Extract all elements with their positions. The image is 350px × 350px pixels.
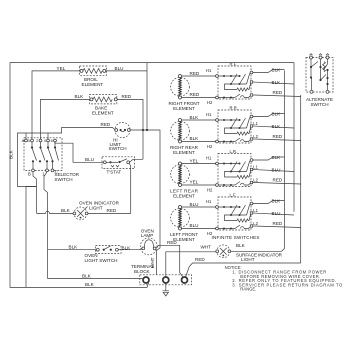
wire BLK (right rear element H2) <box>182 141 216 143</box>
svg-text:RED: RED <box>195 257 205 262</box>
wire L2 bus (right vertical) <box>300 95 302 263</box>
svg-text:ELEMENT: ELEMENT <box>173 150 195 155</box>
selector switch dashed box <box>24 138 62 171</box>
oven indicator light dashed circle <box>74 207 87 220</box>
infinite switch R.F. terminal P (pilot) <box>250 71 253 74</box>
surface indicator light lamp symbol <box>216 250 219 253</box>
wire BLK (to oven indicator light) <box>37 211 74 213</box>
wire BLK (surface light to pilot bus) <box>231 249 285 252</box>
infinite switch L.R. terminal H2 <box>216 184 219 187</box>
infinite switch L.R. terminal L1 <box>250 168 252 170</box>
infinite switch R.F. dashed box <box>218 66 251 99</box>
wire stub (selector 4 up) <box>47 133 49 141</box>
oven indicator light lamp symbol <box>73 212 76 215</box>
svg-text:T'STAT: T'STAT <box>107 170 122 175</box>
infinite switch R.R. internal contacts <box>218 119 240 121</box>
wire RED (L2 R.R. to L2 bus) <box>253 139 301 141</box>
svg-text:RED: RED <box>190 92 200 97</box>
svg-text:L2: L2 <box>253 221 258 226</box>
svg-text:BLK: BLK <box>190 115 200 120</box>
wire (RED wrap joins riser) <box>17 186 36 188</box>
infinite switch L.R. terminal P (pilot) <box>250 159 253 162</box>
svg-text:BLK: BLK <box>75 94 85 99</box>
svg-text:R.R.: R.R. <box>230 106 238 111</box>
wire (t'stat out down to oven indicator) <box>129 164 130 214</box>
selector switch bottom terminals B 1 C <box>32 162 34 169</box>
node junction M2 on hi-limit wire <box>142 129 144 131</box>
svg-text:INFINITE SWITCHES: INFINITE SWITCHES <box>212 235 260 240</box>
wire BLU (L1 L.F. to L1 bus) <box>253 213 294 215</box>
infinite switch L.R. internal contacts <box>218 163 240 165</box>
svg-text:3: 3 <box>28 138 30 143</box>
infinite switch L.R. terminal L2 <box>250 181 252 183</box>
wire BLK (right rear element H1) <box>182 119 216 121</box>
svg-text:LIGHT SWITCH: LIGHT SWITCH <box>85 258 118 263</box>
infinite switch L.F. dashed box <box>218 197 251 230</box>
terminal block dashed box <box>140 275 192 285</box>
wire BLK (L1 R.R. to L1 bus) <box>253 126 294 128</box>
svg-text:RED: RED <box>273 178 283 183</box>
wire (selector B down, jog left, down to bottom border) <box>26 172 37 288</box>
svg-text:L1: L1 <box>253 121 258 126</box>
wire BLU (broil element to node M1) <box>106 70 147 72</box>
svg-text:L1: L1 <box>253 208 258 213</box>
svg-text:L2: L2 <box>253 134 258 139</box>
left rear element dashed circle <box>171 165 190 184</box>
svg-text:2: 2 <box>36 138 38 143</box>
wire YEL (selector 3 to broil element) <box>32 71 80 141</box>
wire BLK (pilot L.R. to pilot bus) <box>253 157 285 160</box>
alternate switch internal contacts <box>311 59 318 90</box>
selector switch blades <box>32 148 37 161</box>
svg-text:ELEMENT: ELEMENT <box>92 110 114 115</box>
wire RED (hi-limit out to WHT drop) <box>130 130 160 275</box>
wire (selector 1 riser joins inner BLK wire) <box>47 250 49 279</box>
svg-text:ELEMENT: ELEMENT <box>173 237 195 242</box>
wire (selector 1 down to oven light switch) <box>44 172 48 250</box>
svg-text:RED: RED <box>122 94 132 99</box>
bake element dashed box <box>89 95 117 104</box>
wire BLK (selector 2 to bake element) <box>41 99 90 140</box>
svg-text:ELEMENT: ELEMENT <box>82 82 104 87</box>
wire YEL (left rear element H1) <box>182 163 216 165</box>
wire YEL (left rear element H2) <box>182 184 216 186</box>
selector switch lower contact dots <box>32 160 34 162</box>
svg-text:B: B <box>28 172 31 177</box>
wire BLK (to oven light switch) <box>48 249 97 251</box>
t'stat dashed box <box>102 157 135 169</box>
infinite switch R.R. terminal H2 <box>216 140 219 143</box>
wire (selector B riser to oven indicator light) <box>36 187 38 214</box>
t'stat contacts <box>103 161 106 164</box>
svg-text:BLU: BLU <box>272 211 281 216</box>
wire RED (right front element H2) <box>182 97 216 99</box>
infinite switch R.R. terminal L1 <box>250 125 252 127</box>
svg-text:H2: H2 <box>207 187 213 192</box>
svg-text:L.F.: L.F. <box>230 193 237 198</box>
wire stub (selector A up) <box>25 133 27 141</box>
svg-text:H1: H1 <box>206 199 212 204</box>
right rear element dashed circle <box>171 121 190 140</box>
svg-text:BLK: BLK <box>82 274 92 279</box>
svg-text:H1: H1 <box>206 156 212 161</box>
svg-text:H1: H1 <box>206 112 212 117</box>
svg-text:BLK: BLK <box>272 124 282 129</box>
svg-text:SWITCH: SWITCH <box>310 102 328 107</box>
svg-text:BLK: BLK <box>61 208 71 213</box>
right front element dashed circle <box>171 77 190 96</box>
wire RED (L2 L.R. to L2 bus) <box>253 183 301 185</box>
svg-text:BLK: BLK <box>69 245 79 250</box>
svg-text:BLK: BLK <box>272 198 282 203</box>
infinite switch L.R. dashed box <box>218 154 251 187</box>
infinite switch L.F. internal contacts <box>218 206 240 208</box>
oven lamp filament <box>142 247 145 250</box>
selector switch top terminals A 3 2 4 6 <box>25 139 28 142</box>
svg-text:RED: RED <box>101 122 111 127</box>
infinite switch R.R. terminal P (pilot) <box>250 115 253 118</box>
wire RED (selector 4 to hi-limit switch) <box>17 128 115 187</box>
selector switch upper contact dots <box>31 142 33 147</box>
svg-text:RED: RED <box>273 134 283 139</box>
wire BLK (L1 R.F. to L1 bus) <box>253 82 294 84</box>
wire BLK (pilot R.R. to pilot bus) <box>253 114 285 117</box>
wire RED (terminal 3 to L2 bus) <box>186 263 301 277</box>
svg-text:RANGE.: RANGE. <box>240 287 256 292</box>
wire RED (L2 R.F. to L2 bus) <box>253 95 301 97</box>
svg-text:BLK: BLK <box>272 111 282 116</box>
infinite switch R.R. terminal H1 <box>216 119 219 122</box>
wire RED (L2 L.F. to L2 bus) <box>253 226 301 228</box>
svg-text:LIGHT: LIGHT <box>241 257 255 262</box>
svg-text:H1: H1 <box>206 68 212 73</box>
wire BLK (pilot R.F. to pilot bus) <box>253 70 285 73</box>
left front element coil <box>179 209 181 227</box>
infinite switch L.F. terminal H2 <box>216 227 219 230</box>
svg-text:BLK: BLK <box>85 282 95 287</box>
alternate switch dashed box <box>306 58 333 93</box>
svg-text:A: A <box>22 138 25 143</box>
svg-text:BLK: BLK <box>236 243 246 248</box>
svg-text:H2: H2 <box>207 144 213 149</box>
broil element resistor <box>80 69 83 72</box>
bake element resistor <box>90 98 93 101</box>
svg-text:H2: H2 <box>207 100 213 105</box>
svg-text:BLU: BLU <box>272 168 281 173</box>
svg-text:BLOCK: BLOCK <box>134 269 151 274</box>
wire BLU (left front element H1) <box>182 206 216 208</box>
left front element dashed circle <box>171 208 190 227</box>
right rear element coil <box>179 122 181 140</box>
wire M1 (node to broil/top border) <box>146 63 148 130</box>
oven light switch contacts <box>96 248 99 251</box>
right front element coil <box>179 78 181 96</box>
svg-text:BLK: BLK <box>9 149 14 159</box>
wire BLU (L1 L.R. to L1 bus) <box>253 170 294 172</box>
infinite switch R.R. terminal L2 <box>250 138 252 140</box>
wire (oven light switch to oven lamp) <box>118 248 142 249</box>
terminal block lug 1 (L1) <box>143 277 149 283</box>
svg-text:LIGHT: LIGHT <box>89 205 103 210</box>
oven lamp dashed circle <box>140 238 157 255</box>
infinite switch R.F. terminal L1 <box>250 81 252 83</box>
left rear element coil <box>179 166 181 184</box>
node junction M1 on hi-limit wire <box>146 129 148 131</box>
svg-text:WHT: WHT <box>201 245 212 250</box>
infinite switch R.F. internal contacts <box>218 75 240 77</box>
svg-text:LAMP: LAMP <box>141 233 154 238</box>
wire RED (oven lamp to terminal 3) <box>156 245 183 277</box>
svg-text:L1: L1 <box>253 165 258 170</box>
wire BLK (inner, to terminal 1) <box>48 278 144 281</box>
svg-text:YEL: YEL <box>190 159 199 164</box>
svg-text:R.F.: R.F. <box>230 62 237 67</box>
svg-text:BLK: BLK <box>272 155 282 160</box>
svg-text:SWITCH: SWITCH <box>54 177 72 182</box>
wire L1 bus (right vertical) <box>293 63 295 212</box>
wire BLK outer frame (top/left/bottom border, L1 net to terminal block) <box>10 63 294 288</box>
infinite switch L.R. terminal H1 <box>216 162 219 165</box>
wire pilot bus (right vertical) <box>284 71 286 249</box>
surface indicator light dashed circle <box>217 245 230 258</box>
wire BLU (selector 6 to t'stat) <box>55 141 103 163</box>
svg-text:BLK: BLK <box>272 67 282 72</box>
svg-text:YEL: YEL <box>190 179 199 184</box>
broil element dashed box <box>80 66 107 75</box>
wire (t'stat out to node M2) <box>130 159 143 162</box>
svg-text:BLU: BLU <box>85 157 94 162</box>
infinite switch L.F. terminal L1 <box>250 212 252 214</box>
svg-text:SWITCH: SWITCH <box>109 146 127 151</box>
wire RED (right front element H1) <box>182 75 216 77</box>
wire BLK (pilot L.F. to pilot bus) <box>253 201 285 204</box>
wire RED (bake element to node M2) <box>117 99 143 159</box>
hi-limit switch dashed circle <box>115 122 130 137</box>
wire WHT (terminal 2 to surface indicator light) <box>166 252 217 277</box>
svg-text:6: 6 <box>51 138 53 143</box>
svg-text:BLU: BLU <box>115 66 124 71</box>
oven light switch dashed box <box>96 246 122 254</box>
terminal block lug 3 (L2) <box>182 277 188 283</box>
wire BLU (left front element H2) <box>182 228 216 230</box>
svg-text:L.R.: L.R. <box>230 149 238 154</box>
ground symbol <box>163 283 169 296</box>
svg-text:BLU: BLU <box>190 202 199 207</box>
infinite switch L.F. terminal H1 <box>216 206 219 209</box>
svg-text:RED: RED <box>273 90 283 95</box>
svg-text:L2: L2 <box>253 178 258 183</box>
hi-limit switch contacts <box>115 129 118 132</box>
alternate switch top terminals <box>310 56 313 59</box>
infinite switch L.F. terminal P (pilot) <box>250 202 253 205</box>
svg-text:ELEMENT: ELEMENT <box>173 106 195 111</box>
infinite switch R.F. terminal H2 <box>216 96 219 99</box>
svg-text:RED: RED <box>273 221 283 226</box>
infinite switch R.R. dashed box <box>218 110 251 143</box>
terminal block lug 2 (N) <box>163 277 169 283</box>
infinite switch R.F. terminal L2 <box>250 94 252 96</box>
svg-text:BLU: BLU <box>190 223 199 228</box>
svg-text:BLK: BLK <box>190 136 200 141</box>
infinite switch R.F. terminal H1 <box>216 75 219 78</box>
svg-text:YEL: YEL <box>57 66 66 71</box>
infinite switch L.F. terminal L2 <box>250 225 252 227</box>
svg-text:ELEMENT: ELEMENT <box>173 193 195 198</box>
svg-text:RED: RED <box>107 208 117 213</box>
svg-text:RED: RED <box>190 71 200 76</box>
wire RED (oven indicator to t'stat drop) <box>88 212 131 214</box>
alternate switch bottom terminals <box>310 90 313 93</box>
svg-text:BLK: BLK <box>272 80 282 85</box>
